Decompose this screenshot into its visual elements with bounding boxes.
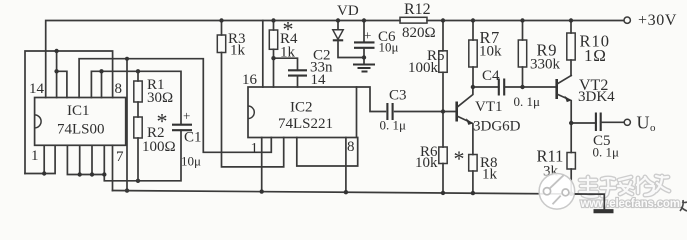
terminal +30V	[624, 17, 630, 23]
svg-text:*: *	[454, 146, 465, 171]
label plus C6	[364, 28, 371, 43]
label 100k	[408, 60, 439, 76]
partial glyph bottom right	[680, 200, 687, 211]
resistor R8	[469, 155, 477, 194]
watermark text dianzifashaoyou	[580, 176, 669, 197]
label VT2	[579, 77, 608, 94]
label star3	[454, 146, 465, 171]
junction dots top rail	[219, 18, 573, 22]
wire IC2 pin to rail	[345, 138, 347, 193]
label 3k	[543, 164, 559, 180]
label C2	[313, 48, 331, 64]
resistor R2	[134, 117, 142, 181]
svg-text:IC2: IC2	[290, 100, 313, 116]
label R2	[147, 125, 165, 141]
svg-text:1Ω: 1Ω	[584, 46, 607, 65]
label 0.1u C4	[514, 94, 541, 109]
junction dots rail right	[260, 189, 574, 196]
label R4	[280, 31, 298, 47]
capacitor C2	[288, 70, 307, 87]
label star1	[157, 109, 168, 134]
ground VD C6	[353, 65, 375, 72]
label 30ohm	[147, 90, 173, 106]
label pin 14 IC2	[311, 72, 327, 88]
label pin 14	[29, 81, 45, 97]
label 74LS00	[57, 122, 105, 138]
label pin 1	[31, 148, 39, 164]
svg-text:1: 1	[251, 141, 259, 157]
label R3	[228, 31, 246, 47]
svg-text:74LS00: 74LS00	[57, 122, 105, 138]
capacitor C4	[473, 79, 557, 96]
wire ground rail over watermark	[576, 194, 605, 210]
label 1k R8	[482, 167, 498, 183]
label 3DK4	[578, 89, 615, 105]
wire ground rail	[113, 191, 605, 210]
wire W4a	[57, 51, 67, 98]
svg-text:10k: 10k	[415, 155, 438, 171]
label 0.1u C5	[593, 145, 620, 160]
label +30V	[638, 12, 677, 29]
resistor R9	[518, 21, 526, 88]
IC2 box	[248, 87, 357, 138]
label 100ohm	[142, 139, 176, 155]
svg-text:30Ω: 30Ω	[147, 90, 173, 106]
svg-text:U: U	[637, 113, 650, 133]
svg-text:VT1: VT1	[475, 99, 503, 115]
svg-text:100Ω: 100Ω	[142, 139, 176, 155]
transistor VT1	[457, 87, 473, 155]
svg-text:C4: C4	[482, 68, 500, 84]
svg-text:3DG6D: 3DG6D	[473, 119, 521, 135]
svg-text:1k: 1k	[230, 43, 246, 59]
label star2	[283, 17, 294, 42]
svg-text:VD: VD	[337, 3, 359, 19]
wire W3 to IC2	[79, 59, 271, 153]
label pin 16 IC2	[242, 72, 258, 88]
capacitor C6	[354, 21, 375, 65]
svg-text:+30V: +30V	[638, 12, 677, 29]
wire R4 to C2	[274, 58, 298, 87]
label R9	[537, 41, 558, 60]
label 10k R7	[479, 44, 502, 60]
label R5	[427, 48, 445, 64]
junction dots mid	[271, 55, 573, 125]
wire W9 under IC2	[297, 138, 358, 167]
diode VD	[333, 21, 364, 58]
svg-text:o: o	[650, 122, 656, 134]
label 1k R4	[280, 45, 296, 61]
junction dots upper left	[54, 49, 140, 74]
label 1ohm	[584, 46, 607, 65]
svg-text:10μ: 10μ	[181, 154, 201, 169]
svg-text:7: 7	[116, 149, 124, 165]
label pin 1 IC2	[251, 141, 259, 157]
transistor VT2	[557, 76, 572, 124]
svg-text:10μ: 10μ	[379, 40, 399, 55]
wire top rail right section	[427, 20, 624, 22]
resistor R5	[439, 21, 447, 112]
label R1	[147, 77, 165, 93]
watermark text elecfans	[580, 198, 680, 210]
resistor R3	[217, 21, 283, 167]
IC1 box	[35, 98, 126, 146]
resistor R7	[469, 21, 477, 88]
label IC2	[290, 100, 313, 116]
capacitor C5	[571, 113, 624, 132]
svg-text:C1: C1	[184, 130, 202, 146]
wire RC loop left vertical	[126, 59, 128, 191]
ground symbol right	[594, 209, 614, 213]
svg-text:0. 1μ: 0. 1μ	[593, 145, 620, 160]
resistor R4	[269, 21, 277, 59]
svg-text:3DK4: 3DK4	[578, 89, 615, 105]
label 1k R3	[230, 43, 246, 59]
label IC1	[67, 103, 90, 119]
wire W2 left loop	[25, 51, 113, 174]
label C3	[389, 88, 407, 104]
label R6	[420, 144, 438, 160]
wire W5 bottom left	[25, 145, 55, 173]
svg-text:14: 14	[29, 81, 45, 97]
label 10u C6	[379, 40, 399, 55]
label pin 8	[115, 81, 123, 97]
label C5	[593, 133, 611, 149]
label C6	[378, 29, 396, 45]
svg-text:1k: 1k	[482, 167, 498, 183]
wire W7 timing node	[104, 130, 181, 181]
wire IC1 pin7 to ground rail	[112, 145, 114, 190]
resistor R6	[439, 112, 447, 194]
resistor R12	[400, 17, 427, 23]
label R7	[480, 28, 500, 47]
label 74LS221	[278, 116, 333, 132]
svg-text:8: 8	[115, 81, 123, 97]
label 10u C1	[181, 154, 201, 169]
capacitor C3	[387, 103, 456, 120]
wire IC2 pin1 to rail	[261, 138, 263, 192]
label R10	[580, 32, 611, 51]
wire IC2 pin16	[262, 21, 264, 88]
svg-text:www.elecfans.com: www.elecfans.com	[580, 198, 680, 210]
capacitor C1	[172, 125, 192, 131]
junction dots bottom left	[42, 171, 140, 193]
svg-text:0. 1μ: 0. 1μ	[380, 118, 407, 133]
terminal Uo	[624, 119, 630, 125]
label pin 7	[116, 149, 124, 165]
label 820ohm	[402, 25, 436, 41]
label R12	[404, 1, 431, 18]
wire W4b	[91, 71, 181, 124]
label 10k R6	[415, 155, 438, 171]
label pin 8 IC2	[347, 139, 355, 155]
svg-text:330k: 330k	[530, 57, 561, 73]
svg-text:74LS221: 74LS221	[278, 116, 333, 132]
watermark logo circle	[539, 174, 575, 210]
svg-text:16: 16	[242, 72, 258, 88]
wire top rail left section	[46, 21, 400, 98]
label VD	[337, 3, 359, 19]
label C4	[482, 68, 500, 84]
svg-text:1: 1	[31, 148, 39, 164]
label 3DG6D	[473, 119, 521, 135]
svg-text:R12: R12	[404, 1, 431, 18]
svg-text:0. 1μ: 0. 1μ	[514, 94, 541, 109]
label C1	[184, 130, 202, 146]
wire W6	[67, 145, 104, 174]
wire IC2 output to C3	[357, 87, 386, 112]
resistor R11	[567, 123, 575, 194]
svg-text:10k: 10k	[479, 44, 502, 60]
svg-text:+: +	[364, 28, 371, 43]
svg-text:C3: C3	[389, 88, 407, 104]
label Uo	[637, 113, 657, 135]
label 330k	[530, 57, 561, 73]
label R8	[480, 155, 498, 171]
svg-text:+: +	[183, 108, 190, 123]
svg-text:14: 14	[311, 72, 327, 88]
label 33n	[310, 60, 333, 76]
label VT1	[475, 99, 503, 115]
resistor R10	[567, 21, 575, 76]
watermark halo over 3k	[540, 173, 562, 179]
svg-text:820Ω: 820Ω	[402, 25, 436, 41]
label 0.1u C3	[380, 118, 407, 133]
resistor R1	[134, 71, 142, 117]
svg-text:IC1: IC1	[67, 103, 90, 119]
svg-text:8: 8	[347, 139, 355, 155]
svg-text:100k: 100k	[408, 60, 439, 76]
label R11	[537, 147, 564, 166]
label plus C1	[183, 108, 190, 123]
